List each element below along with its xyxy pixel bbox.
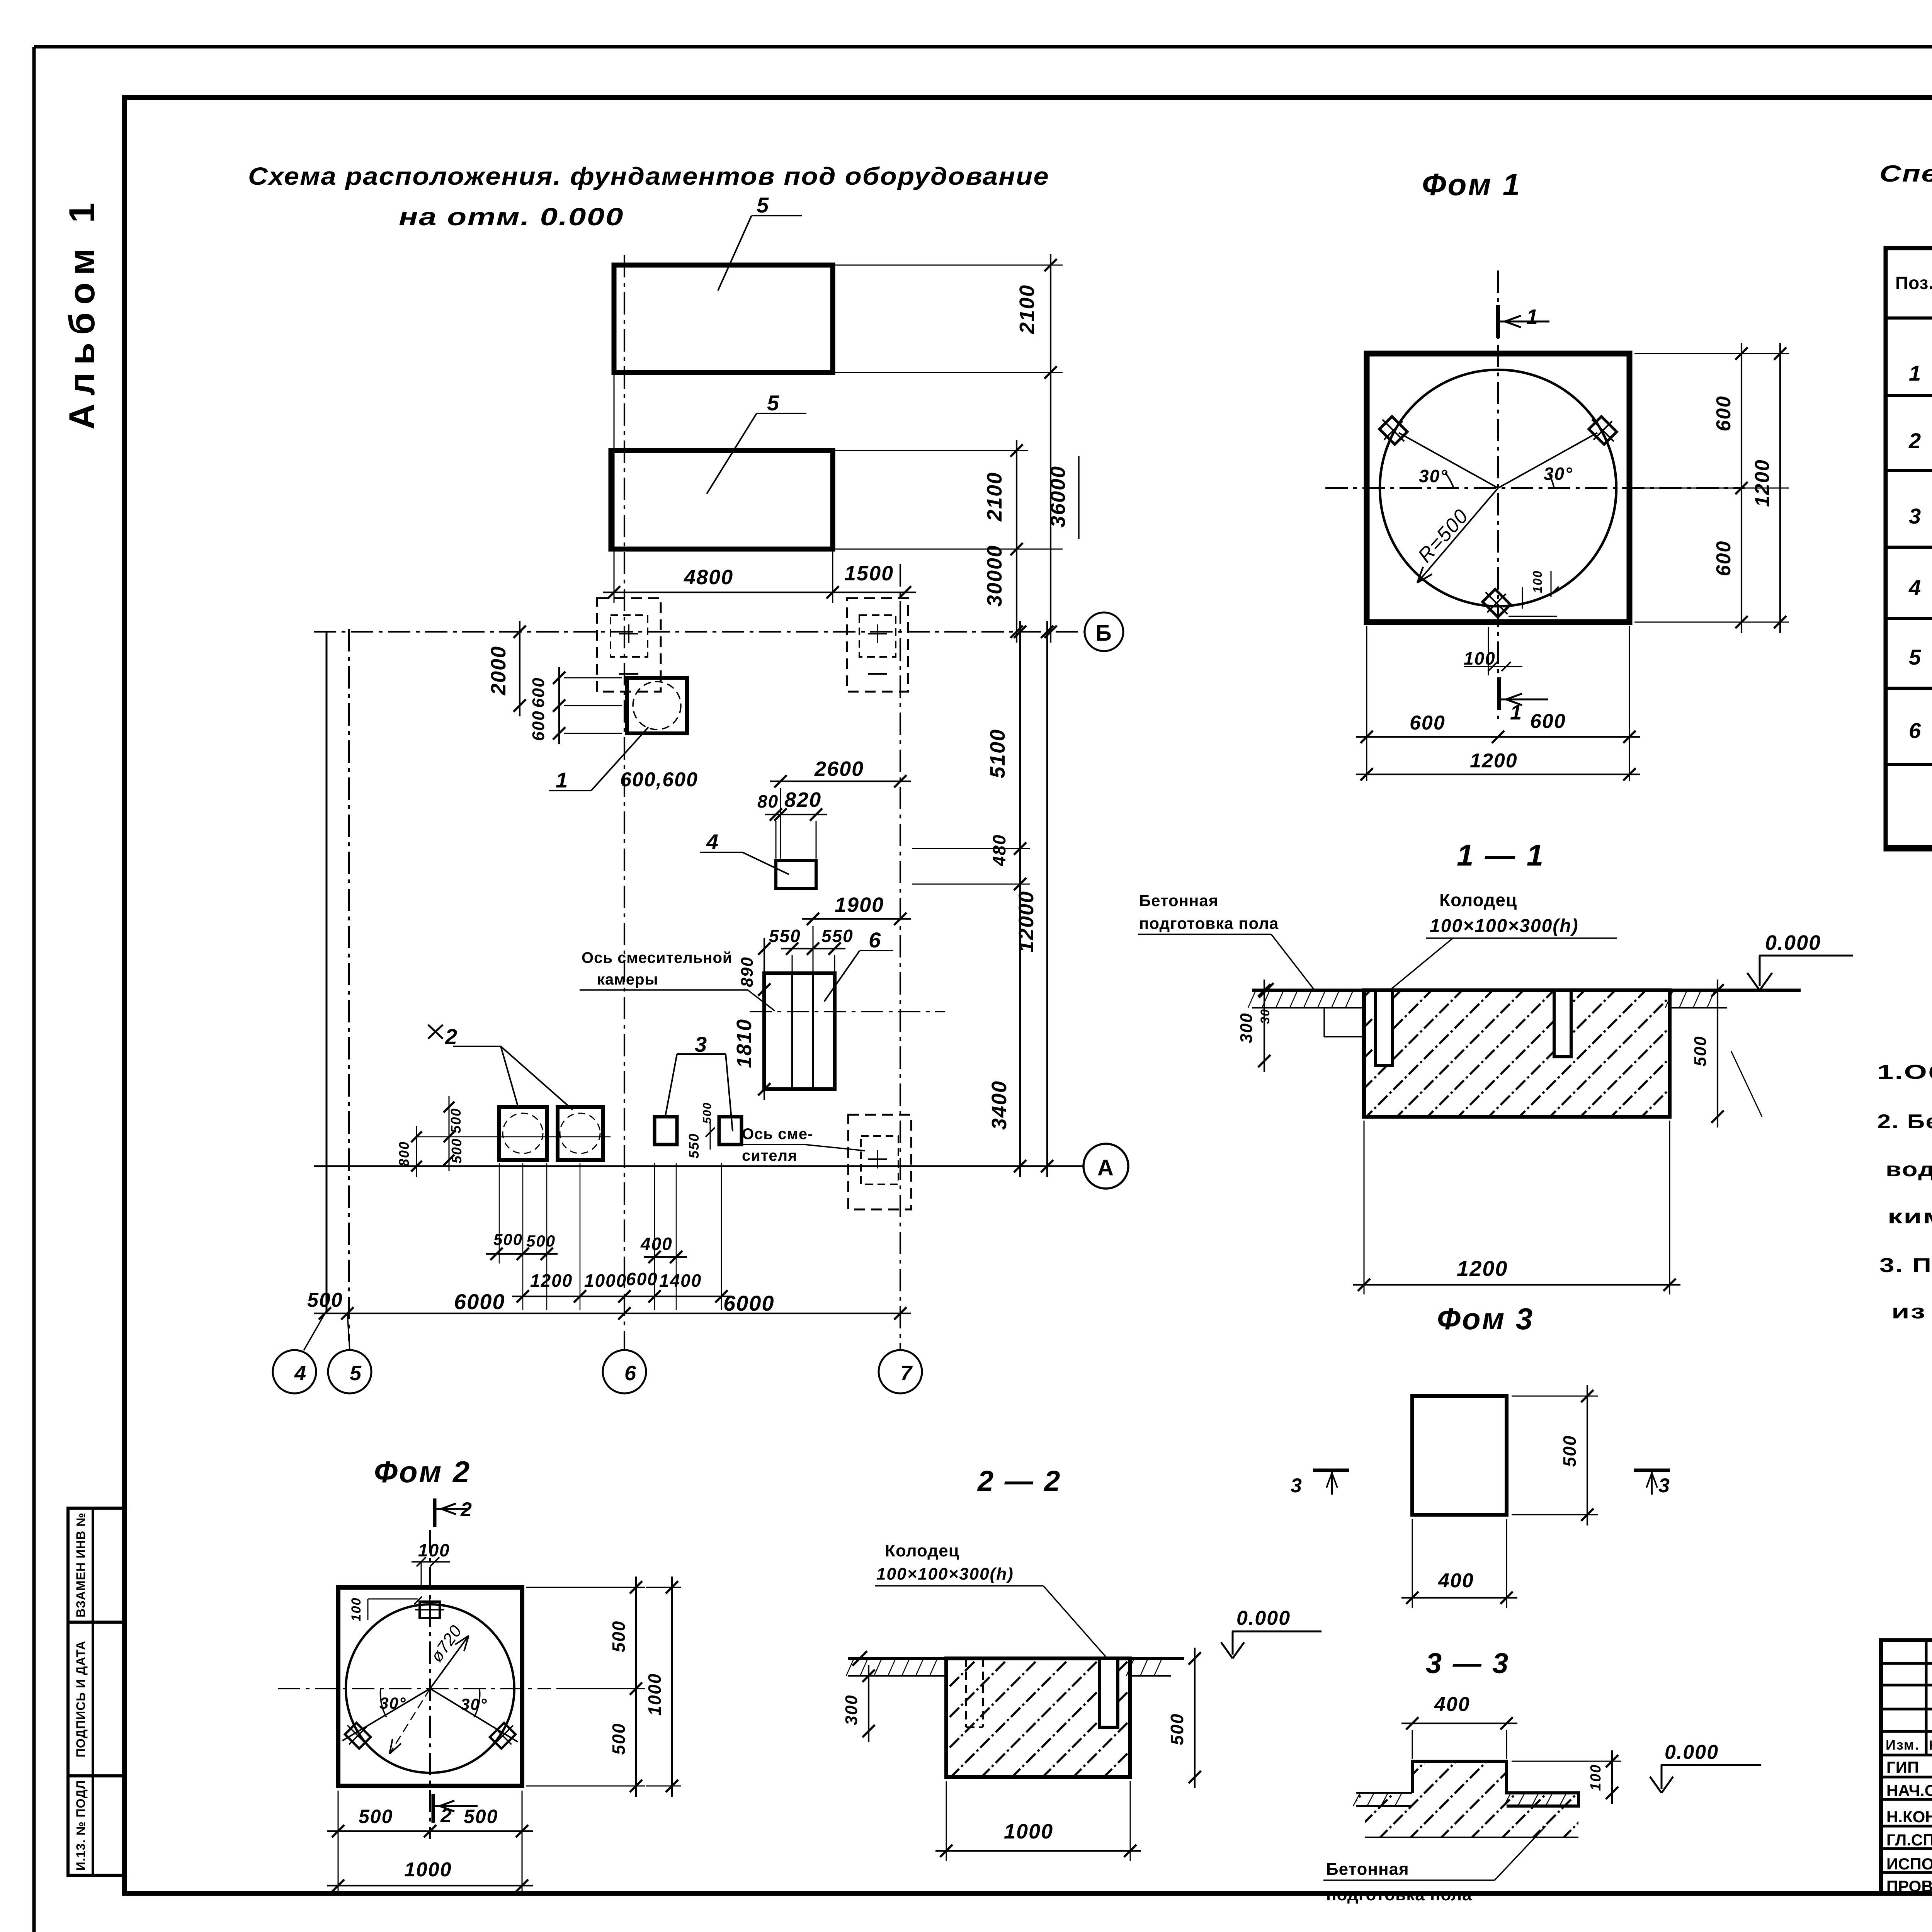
svg-text:Фом 1: Фом 1 (1422, 167, 1521, 202)
svg-text:3: 3 (695, 1032, 707, 1056)
Фом 2 square (338, 1587, 522, 1786)
specification row 5 (1909, 626, 1932, 690)
svg-text:Схема расположения. фундамен: Схема расположения. фундаментов под обор… (248, 162, 1049, 190)
svg-text:1000: 1000 (1004, 1820, 1053, 1843)
Фом 1 radius lines (1399, 433, 1597, 583)
specification table header (1895, 269, 1932, 313)
specification row 1 (1909, 332, 1932, 399)
svg-text:30°: 30° (1419, 466, 1448, 486)
specification table grid (1886, 248, 1932, 849)
section 3-3 dim 100 right (1512, 1750, 1621, 1804)
svg-text:300: 300 (1237, 1012, 1256, 1043)
svg-text:550: 550 (769, 926, 801, 946)
svg-text:5: 5 (757, 193, 769, 217)
section 3-3 pedestal and slab hatched (1356, 1761, 1578, 1837)
bottom dim chain 1200 1000 600 1400 (512, 1269, 732, 1303)
svg-text:из бетона В3.5 толщиной: из бетона В3.5 толщиной 100 мм (1891, 1301, 1932, 1323)
svg-text:2: 2 (460, 1498, 473, 1521)
stamp header labels (1886, 1736, 1932, 1753)
svg-text:1: 1 (1526, 305, 1539, 328)
svg-text:100: 100 (418, 1540, 450, 1560)
Фом 2 section mark 2 bottom (433, 1794, 478, 1827)
section 1-1 bottom dim 1200 (1353, 1121, 1680, 1294)
svg-text:И.13. № ПОДЛ: И.13. № ПОДЛ (74, 1780, 88, 1871)
svg-text:100×100×300(h): 100×100×300(h) (876, 1565, 1014, 1583)
Фом 2 radius and diameter lines (342, 1622, 518, 1754)
svg-text:1400: 1400 (659, 1270, 702, 1291)
svg-text:600: 600 (626, 1269, 658, 1289)
svg-text:5: 5 (350, 1362, 362, 1385)
svg-text:480: 480 (989, 834, 1009, 867)
label axis of mixing chamber (580, 949, 775, 1011)
svg-text:3400: 3400 (988, 1080, 1011, 1130)
Фом 1 anchor circle (1380, 370, 1616, 606)
specification title (1879, 161, 1932, 234)
Фом 1 dim 100 below square (1464, 627, 1522, 675)
svg-text:Колодец: Колодец (1439, 890, 1517, 910)
svg-text:3: 3 (1909, 504, 1922, 528)
svg-text:2 — 2: 2 — 2 (977, 1465, 1061, 1497)
mixer dims 890 1810 (733, 938, 770, 1100)
svg-text:2: 2 (445, 1024, 458, 1049)
stamp signature rows (1886, 1758, 1932, 1896)
svg-text:550: 550 (686, 1133, 702, 1158)
section 2-2 ground line (848, 1651, 1184, 1666)
dashed foundation cluster on axis А right (848, 1115, 911, 1209)
Фом 1 anchor bolts (1373, 410, 1623, 624)
svg-text:2600: 2600 (814, 757, 864, 781)
mixer foundation 6 (764, 973, 835, 1089)
svg-text:Фом 2: Фом 2 (374, 1455, 471, 1489)
svg-text:600: 600 (1713, 541, 1735, 577)
note 2 line 3 (1888, 1206, 1932, 1228)
specification row 2 (1908, 406, 1932, 472)
right dim chain 2100 / 30000 (833, 440, 1063, 643)
svg-text:300: 300 (842, 1694, 861, 1725)
svg-text:820: 820 (784, 788, 821, 811)
label axis of mixer (740, 1126, 865, 1164)
axis line 4 vertical wall (326, 632, 328, 1313)
svg-text:2100: 2100 (983, 472, 1006, 522)
section 2-2 block hatched (946, 1658, 1130, 1777)
svg-text:Бетонная: Бетонная (1326, 1860, 1409, 1879)
svg-text:600: 600 (1713, 396, 1735, 432)
mixer dim 550 550 (769, 926, 854, 971)
svg-text:ВЗАМЕН ИНВ №: ВЗАМЕН ИНВ № (74, 1512, 88, 1617)
svg-text:1000: 1000 (584, 1270, 627, 1291)
level mark 0.000 section 2-2 (1221, 1607, 1321, 1658)
note 2 line 2 (1886, 1158, 1932, 1181)
svg-text:3 — 3: 3 — 3 (1426, 1647, 1510, 1679)
svg-text:500: 500 (526, 1232, 556, 1250)
dashed foundation cluster on axis 7 top (847, 598, 908, 692)
left margin label ИНВ № ПОДЛ (74, 1780, 88, 1871)
dimension 80 820 (757, 788, 827, 859)
dashed foundation cluster on axis 6 top (597, 598, 661, 692)
mixer axis line horizontal (750, 1011, 945, 1012)
svg-text:100: 100 (349, 1597, 364, 1622)
svg-text:500: 500 (701, 1102, 714, 1124)
svg-text:30000: 30000 (983, 545, 1006, 607)
right dim chain 2100 / 36000 (833, 254, 1079, 643)
svg-text:Фом 3: Фом 3 (1437, 1302, 1534, 1336)
Фом 2 bottom dim 1000 (327, 1859, 533, 1892)
section 3-3 floor lines (1353, 1793, 1578, 1837)
axis circle Б (1085, 612, 1123, 651)
right dim 12000 (1015, 621, 1053, 1177)
svg-text:1: 1 (556, 768, 568, 792)
axis line 5 vertical (348, 629, 350, 1341)
Фом 2 angle labels 30 (379, 1689, 488, 1717)
svg-text:3: 3 (1658, 1475, 1670, 1497)
leader 5 upper (718, 193, 802, 291)
axis circle 4 (273, 1313, 325, 1393)
right dim chain 5100 480 3400 (912, 621, 1030, 1177)
foundation 1 dims 600 600 (529, 667, 622, 744)
vertical label Альбом 1 (61, 195, 102, 430)
svg-text:500: 500 (493, 1230, 523, 1248)
svg-text:на отм. 0.000: на отм. 0.000 (399, 203, 624, 231)
label well 100x100x300 section 2-2 (875, 1541, 1106, 1657)
svg-text:камеры: камеры (597, 971, 658, 988)
title Фом 2 (374, 1455, 471, 1489)
axis line А horizontal (314, 1165, 1084, 1167)
svg-text:500: 500 (307, 1289, 343, 1311)
section 1-1 floor right (1665, 990, 1762, 1117)
svg-text:890: 890 (738, 956, 757, 987)
bottom dim chain 500 6000 6000 (307, 1289, 911, 1320)
Фом 1 section mark 1 bottom (1499, 677, 1548, 724)
svg-text:ПОДПИСЬ И ДАТА: ПОДПИСЬ И ДАТА (74, 1641, 88, 1757)
main title line 1 (248, 162, 1049, 190)
Фом 2 right dim 1000 (645, 1577, 681, 1797)
svg-text:100: 100 (1464, 648, 1496, 668)
Фом 1 square (1367, 354, 1629, 622)
svg-text:1200: 1200 (530, 1270, 573, 1291)
svg-text:Ось смесительной: Ось смесительной (582, 949, 732, 966)
svg-text:1810: 1810 (733, 1019, 756, 1068)
section 1-1 dim 300 left (1237, 980, 1272, 1072)
svg-text:500: 500 (448, 1108, 464, 1133)
svg-text:7: 7 (900, 1362, 913, 1385)
svg-text:5100: 5100 (986, 729, 1009, 778)
svg-text:2: 2 (440, 1804, 452, 1827)
section 2-2 floor strips (846, 1658, 1171, 1676)
Фом 3 square (1412, 1396, 1507, 1515)
leader 5 lower (707, 391, 806, 494)
svg-text:800: 800 (396, 1141, 412, 1167)
Фом 3 bottom dim 400 (1401, 1519, 1517, 1608)
svg-text:подготовка пола: подготовка пола (1139, 914, 1279, 932)
boiler foundation rectangle 5 upper (614, 265, 833, 372)
svg-text:2: 2 (1908, 429, 1922, 453)
label concrete floor preparation (1138, 891, 1314, 989)
title Фом 3 (1437, 1302, 1534, 1336)
svg-text:1200: 1200 (1751, 459, 1774, 507)
svg-text:ИСПОЛН.: ИСПОЛН. (1886, 1855, 1932, 1873)
svg-text:600: 600 (529, 710, 548, 741)
dimension 2600 (770, 757, 911, 859)
Фом 1 label R=500 (1414, 505, 1473, 567)
axis line Б horizontal (314, 631, 1084, 633)
svg-text:Альбом 1: Альбом 1 (61, 195, 102, 430)
Фом 2 bottom dims 500 500 (327, 1791, 533, 1896)
svg-text:Спецификация к схеме рас: Спецификация к схеме расположения фундам… (1879, 161, 1932, 187)
Фом 1 bottom dim 1200 (1356, 750, 1640, 781)
leader 3 (665, 1032, 733, 1131)
svg-text:3: 3 (1291, 1475, 1303, 1497)
svg-text:500: 500 (1691, 1036, 1710, 1066)
dimension 4800 and 1500 (603, 372, 916, 603)
svg-text:12000: 12000 (1015, 891, 1038, 952)
svg-text:2000: 2000 (487, 646, 510, 696)
stamp left grid (1881, 1640, 1932, 1893)
svg-text:5: 5 (767, 391, 780, 415)
axis circle 7 (879, 1350, 922, 1393)
svg-text:6: 6 (869, 928, 881, 952)
note 1 (1877, 1061, 1932, 1083)
section 1-1 well right (1554, 990, 1571, 1057)
title Фом 1 (1422, 167, 1521, 202)
svg-text:4: 4 (294, 1362, 307, 1385)
svg-text:сителя: сителя (742, 1147, 797, 1164)
small dims near foundations 2 and 3 (396, 1096, 715, 1177)
section 1-1 dim 500 right (1691, 980, 1724, 1128)
svg-text:1200: 1200 (1457, 1256, 1508, 1281)
svg-text:Бетонная: Бетонная (1139, 891, 1218, 910)
note 3 line 2 (1891, 1301, 1932, 1323)
svg-text:1900: 1900 (835, 893, 884, 917)
svg-text:ПРОВЕР.: ПРОВЕР. (1886, 1877, 1932, 1895)
svg-text:550: 550 (821, 926, 854, 946)
svg-text:1: 1 (1510, 701, 1522, 724)
note 2 line 1 (1877, 1111, 1932, 1133)
Фом 1 centerlines (1325, 270, 1745, 719)
stamp outer box (1881, 1640, 1932, 1893)
Фом 1 bottom dims 600 600 (1356, 626, 1640, 781)
extension lines below foundations (499, 1163, 721, 1310)
svg-text:400: 400 (1434, 1693, 1470, 1716)
svg-text:Колодец: Колодец (885, 1541, 959, 1560)
svg-text:600,600: 600,600 (620, 769, 698, 791)
svg-text:2100: 2100 (1015, 284, 1039, 334)
section 1-1 well left (1376, 990, 1393, 1066)
svg-text:30°: 30° (461, 1695, 488, 1713)
svg-text:водить после их сверки: водить после их сверки с полученным техн… (1886, 1158, 1932, 1181)
left margin stamp table (68, 1508, 126, 1875)
svg-text:1500: 1500 (844, 562, 894, 585)
label well 100x100x300 (1391, 890, 1617, 989)
svg-text:6: 6 (624, 1362, 637, 1385)
svg-text:36000: 36000 (1046, 466, 1070, 527)
Фом 1 right dims 600 600 (1634, 343, 1789, 633)
Фом 3 section marks 3 (1291, 1470, 1670, 1497)
svg-text:подготовка пола: подготовка пола (1326, 1885, 1472, 1904)
Фом 2 dim 100 top (412, 1540, 450, 1587)
svg-text:6000: 6000 (723, 1291, 775, 1315)
svg-text:500: 500 (1167, 1713, 1187, 1745)
note 3 line 1 (1879, 1254, 1932, 1277)
svg-text:Колуч: Колуч (1929, 1738, 1932, 1753)
level mark 0.000 section 3-3 (1650, 1741, 1761, 1793)
svg-text:Н.КОНТР.: Н.КОНТР. (1886, 1808, 1932, 1826)
svg-text:500: 500 (1560, 1435, 1580, 1467)
svg-text:1.Общие указания см. ли: 1.Общие указания см. лист 1 (1877, 1061, 1932, 1083)
svg-text:5: 5 (1909, 645, 1922, 669)
main title line 2 (399, 203, 624, 231)
mixer dim 1900 (802, 893, 911, 971)
svg-text:500: 500 (359, 1806, 393, 1827)
axis line 7 vertical (900, 564, 901, 1350)
Фом 1 section mark 1 top (1498, 305, 1549, 338)
svg-text:30: 30 (1258, 1009, 1272, 1024)
specification row 6 (1909, 698, 1932, 762)
svg-text:А: А (1097, 1155, 1114, 1180)
svg-text:0.000: 0.000 (1236, 1607, 1291, 1629)
axis circle 6 (603, 1350, 646, 1393)
foundation 3 squares (655, 1117, 742, 1145)
svg-text:НАЧ.ОТД: НАЧ.ОТД (1886, 1781, 1932, 1799)
Фом 1 right dim 1200 (1751, 343, 1786, 633)
section 2-2 well right (1099, 1658, 1118, 1727)
boiler foundation rectangle 5 lower (611, 451, 833, 549)
svg-text:3. Под всеми фундаментами: 3. Под всеми фундаментами выполнить подг… (1879, 1254, 1932, 1277)
Фом 2 centerlines (278, 1530, 551, 1839)
svg-text:4: 4 (1908, 575, 1922, 600)
svg-text:Поз.: Поз. (1895, 273, 1932, 293)
title 2 - 2 (977, 1465, 1061, 1497)
svg-text:1000: 1000 (645, 1673, 665, 1716)
title 1 - 1 (1457, 838, 1545, 872)
svg-text:400: 400 (1438, 1570, 1474, 1592)
svg-text:0.000: 0.000 (1665, 1741, 1719, 1764)
Фом 2 section mark 2 top (435, 1498, 473, 1527)
section 1-1 floor left (1248, 990, 1364, 1037)
Фом 1 bottom bolt micro dim (1509, 570, 1559, 616)
svg-text:600: 600 (529, 677, 548, 707)
svg-text:ким оборудованием.: ким оборудованием. (1888, 1206, 1932, 1228)
title 3 - 3 (1426, 1647, 1510, 1679)
svg-text:1: 1 (1909, 361, 1922, 385)
svg-text:80: 80 (757, 791, 779, 811)
level mark 0.000 section 1-1 (1747, 931, 1853, 990)
svg-text:100: 100 (1531, 570, 1544, 593)
svg-text:500: 500 (609, 1621, 629, 1653)
Фом 2 right dims 500 500 (526, 1577, 645, 1797)
svg-text:600: 600 (1530, 710, 1566, 733)
specification row 4 (1908, 552, 1932, 629)
left margin label ВЗАМЕН ИНВ № (74, 1512, 88, 1617)
svg-text:Б: Б (1095, 621, 1112, 646)
svg-text:100×100×300(h): 100×100×300(h) (1430, 916, 1579, 936)
svg-text:ГЛ.СПЕЦ.: ГЛ.СПЕЦ. (1886, 1831, 1932, 1849)
bottom dim chain 500 500 and 400 (486, 1230, 687, 1263)
leader 4 (700, 830, 789, 874)
foundation 2 squares (499, 1107, 603, 1160)
axis line 6 vertical (624, 255, 625, 1350)
specification row 3 (1909, 482, 1932, 549)
left margin label ПОДПИСЬ И ДАТА (74, 1641, 88, 1757)
section 1-1 foundation block hatched (1364, 990, 1670, 1117)
section 2-2 dim 500 right (1167, 1648, 1201, 1788)
svg-text:Изм.: Изм. (1886, 1737, 1920, 1753)
axis circle А (1083, 1144, 1128, 1189)
svg-text:ГИП: ГИП (1886, 1758, 1919, 1776)
foundation 1 square with circle (627, 678, 687, 733)
svg-text:500: 500 (464, 1806, 498, 1827)
axis circle 5 (328, 1313, 371, 1393)
leader 6 (824, 928, 893, 1002)
Фом 2 top bolt dim 100 (349, 1597, 422, 1621)
leader 1 with 600,600 (549, 727, 698, 792)
leader 2 with X mark (428, 1024, 573, 1110)
section 2-2 dim 300 left (842, 1665, 875, 1742)
svg-text:1000: 1000 (404, 1859, 452, 1881)
svg-text:1 — 1: 1 — 1 (1457, 838, 1545, 872)
Фом 2 anchor bolts (339, 1597, 522, 1755)
svg-text:6000: 6000 (454, 1289, 505, 1314)
Фом 2 circle (346, 1604, 514, 1773)
section 2-2 bottom dim 1000 (935, 1781, 1141, 1861)
svg-text:4800: 4800 (684, 566, 733, 589)
svg-text:0.000: 0.000 (1765, 931, 1821, 954)
Фом 1 angle labels 30 (1419, 464, 1573, 488)
svg-text:Ось сме-: Ось сме- (742, 1126, 813, 1143)
section 1-1 ground line (1252, 983, 1801, 998)
section 3-3 top dim 400 (1401, 1693, 1517, 1759)
section 2-2 well hidden left (966, 1658, 983, 1727)
svg-text:6: 6 (1909, 718, 1922, 743)
svg-text:600: 600 (1410, 712, 1446, 734)
svg-text:4: 4 (706, 830, 719, 854)
foundation 1 dim 2000 (487, 621, 526, 716)
svg-text:500: 500 (449, 1138, 464, 1163)
svg-text:100: 100 (1588, 1764, 1604, 1791)
Фом 3 right dim 500 (1512, 1385, 1598, 1526)
foundation 4 rectangle (776, 861, 816, 889)
svg-text:2. Бетонирование фундаментов: 2. Бетонирование фундаментов под оборудо… (1877, 1111, 1932, 1133)
label concrete floor preparation 3-3 (1323, 1826, 1546, 1904)
svg-text:500: 500 (609, 1723, 629, 1755)
svg-text:400: 400 (640, 1234, 673, 1254)
svg-text:1200: 1200 (1470, 750, 1518, 772)
